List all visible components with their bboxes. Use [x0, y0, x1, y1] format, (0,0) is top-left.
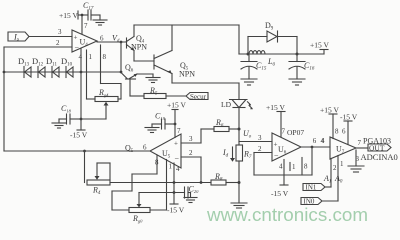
- U7 pin 3 ground: [348, 150, 364, 172]
- svg-text:Secur: Secur: [190, 93, 207, 101]
- node Vd: [112, 34, 122, 45]
- potentiometer R4: [85, 151, 111, 196]
- U5 pin 1 to Rg0 right: [150, 160, 173, 211]
- svg-text:1: 1: [89, 53, 93, 61]
- ground (C16): [289, 79, 305, 85]
- op-amp U6 OP07: [272, 128, 304, 161]
- wire +15V filter rail: [239, 53, 324, 56]
- U7 pin 2 (A1): [331, 159, 337, 188]
- U7 output pin 7 to OUT: [356, 139, 368, 148]
- wire Q6 base down to R5: [130, 79, 144, 96]
- op-amp U5 (points left): [143, 134, 181, 168]
- svg-text:Q6: Q6: [125, 63, 134, 74]
- wire R7 down to ground: [238, 161, 241, 203]
- svg-text:A0: A0: [334, 174, 343, 185]
- svg-text:4: 4: [279, 163, 283, 171]
- svg-text:U7: U7: [336, 145, 345, 156]
- svg-text:L6: L6: [267, 57, 275, 68]
- svg-text:3: 3: [258, 134, 262, 142]
- capacitor C18: [59, 104, 81, 124]
- ground (C19): [145, 124, 159, 133]
- svg-text:ADCINA0: ADCINA0: [361, 152, 398, 162]
- svg-text:3: 3: [189, 135, 193, 143]
- U6 pin 8 stub: [302, 158, 308, 176]
- net tag IN1: [303, 184, 331, 192]
- svg-text:7: 7: [358, 139, 362, 147]
- U5 pin 8 to Rg0 left: [112, 155, 159, 210]
- svg-text:D13: D13: [18, 56, 30, 68]
- wire Q5 emitter to LD column: [172, 74, 239, 84]
- svg-text:C16: C16: [304, 61, 315, 72]
- svg-text:7: 7: [84, 22, 88, 30]
- svg-text:7: 7: [282, 128, 286, 136]
- svg-text:1: 1: [292, 163, 296, 171]
- current arrow Id: [222, 147, 235, 162]
- diode D9: [265, 21, 278, 42]
- svg-text:+: +: [174, 140, 178, 148]
- net tag OUT: [368, 143, 391, 152]
- wire top rail down to +15V filter rail: [238, 25, 240, 54]
- ground (C15): [241, 79, 257, 85]
- svg-text:2: 2: [258, 145, 262, 153]
- svg-text:Vd: Vd: [112, 34, 120, 45]
- svg-text:-15 V: -15 V: [340, 113, 358, 122]
- svg-text:6: 6: [313, 137, 317, 145]
- svg-text:+15 V: +15 V: [310, 41, 329, 50]
- wire Is to U4 pin3: [29, 36, 72, 38]
- wire U4 pin2 to left frame: [4, 46, 72, 48]
- wire Q4 collector up: [133, 25, 135, 37]
- wire Vd down to Q6 collector row: [120, 42, 122, 73]
- wire Q5 collector up: [171, 25, 173, 51]
- svg-text:6: 6: [100, 35, 104, 43]
- U7 pin 1 (A0): [338, 156, 344, 202]
- wire Rg4 wiper to -15V rail: [81, 118, 106, 120]
- svg-text:C18: C18: [61, 104, 72, 114]
- net tag IN0: [301, 198, 338, 206]
- left frame wire: [4, 47, 150, 152]
- svg-text:2: 2: [333, 164, 337, 172]
- svg-text:D11: D11: [46, 56, 57, 68]
- U6 pin 7 and +15V: [266, 103, 286, 137]
- svg-text:D9: D9: [265, 21, 274, 32]
- ground (R7/R8): [231, 203, 247, 208]
- svg-text:OUT: OUT: [369, 143, 385, 152]
- capacitor C20: [185, 185, 200, 199]
- amplifier U7 PGA103: [330, 137, 391, 160]
- svg-text:+: +: [274, 141, 278, 149]
- svg-text:3: 3: [58, 28, 62, 36]
- wire Q6 emitter to ground: [137, 73, 153, 75]
- capacitor C16: [289, 54, 315, 79]
- svg-text:4: 4: [79, 53, 83, 61]
- svg-text:Rg0: Rg0: [132, 214, 143, 224]
- U6 pin 4 to -15V: [271, 160, 289, 199]
- net tag Secur: [186, 93, 208, 101]
- wire R5 to Secur tag: [166, 95, 186, 97]
- svg-text:7: 7: [177, 127, 181, 135]
- ground (C17): [93, 15, 107, 25]
- diode D12: [32, 56, 45, 78]
- U5 pin 2 wire down to bottom wire: [181, 149, 202, 184]
- labels A1 A0: [323, 174, 343, 185]
- svg-text:Rg4: Rg4: [98, 88, 109, 98]
- op-amp U4: [72, 30, 97, 53]
- U7 pin 8 and +15V: [320, 106, 339, 139]
- svg-text:www.cntronics.com: www.cntronics.com: [206, 204, 368, 225]
- svg-text:R8: R8: [214, 172, 223, 183]
- label ADCINA0: [356, 152, 398, 163]
- svg-text:6: 6: [143, 144, 147, 152]
- ground (Q6 emitter): [146, 74, 160, 83]
- svg-text:+15 V: +15 V: [266, 103, 285, 112]
- U6 output wire to U7: [301, 137, 330, 147]
- wire U4 output to Q4 base, node Vd: [97, 41, 127, 43]
- svg-text:8: 8: [155, 159, 159, 167]
- svg-text:8: 8: [103, 53, 107, 61]
- svg-text:Id: Id: [222, 148, 229, 159]
- svg-text:U4: U4: [80, 38, 89, 49]
- svg-text:Is: Is: [13, 32, 19, 43]
- capacitor C19: [152, 112, 175, 130]
- wire Rg0 wiper to -15V rail and C20: [139, 192, 185, 194]
- svg-text:−: −: [175, 154, 180, 163]
- svg-text:8: 8: [335, 128, 339, 136]
- svg-text:R5: R5: [149, 86, 158, 97]
- svg-text:C15: C15: [256, 61, 267, 72]
- svg-text:1: 1: [169, 163, 173, 171]
- +15V terminal (top left): [59, 11, 88, 20]
- U6 pin 1 stub: [290, 163, 296, 172]
- resistor R7 (vertical): [236, 145, 252, 161]
- transistor Q4: [127, 34, 148, 52]
- resistor R6: [214, 118, 239, 132]
- svg-text:+15 V: +15 V: [320, 106, 339, 115]
- U4 pin 4 / -15V column: [70, 49, 88, 140]
- diode D11: [46, 56, 59, 78]
- svg-text:Q5: Q5: [125, 144, 134, 155]
- U5 pin 7 and +15V: [167, 101, 186, 138]
- svg-text:U6: U6: [278, 145, 287, 156]
- svg-text:U5: U5: [162, 149, 171, 160]
- svg-text:-15 V: -15 V: [167, 206, 185, 215]
- svg-text:2: 2: [56, 39, 60, 47]
- capacitor C15: [241, 54, 267, 79]
- laser diode LD: [221, 83, 253, 109]
- diode D10: [61, 56, 73, 78]
- resistor R8: [211, 172, 239, 185]
- svg-text:8: 8: [304, 163, 308, 171]
- svg-text:A1: A1: [323, 174, 331, 185]
- inductor L6: [249, 51, 275, 68]
- ground (C18): [52, 119, 66, 128]
- U4 pin 8 to Rg4 right: [101, 45, 122, 99]
- svg-text:-15 V: -15 V: [70, 131, 88, 140]
- wire top rail Q4/Q5 collectors: [134, 24, 239, 26]
- svg-text:R4: R4: [92, 186, 101, 197]
- svg-text:+: +: [74, 34, 78, 42]
- svg-text:NPN: NPN: [131, 43, 147, 52]
- diode row wire (left): [3, 71, 123, 74]
- wire node Uo to OP07 pin3: [239, 141, 272, 143]
- ground (C20): [184, 193, 197, 203]
- svg-text:6: 6: [342, 128, 346, 136]
- +15V terminal (right of L6): [310, 41, 329, 55]
- diode D13: [18, 56, 31, 78]
- U5 pin 4 to -15V: [167, 163, 185, 215]
- potentiometer Rg0: [129, 193, 150, 224]
- svg-text:OP07: OP07: [287, 128, 304, 137]
- wire R4 to R8 (long bottom wire): [110, 182, 211, 184]
- svg-text:NPN: NPN: [179, 70, 195, 79]
- input tag Is: [8, 32, 29, 43]
- svg-text:4: 4: [176, 165, 180, 173]
- potentiometer Rg4: [95, 88, 118, 119]
- U7 pin 6 and -15V: [340, 113, 358, 145]
- wire Q4 emitter to Q5 base: [134, 51, 154, 62]
- svg-text:2: 2: [189, 149, 193, 157]
- svg-text:IN1: IN1: [306, 184, 317, 192]
- svg-text:+15 V: +15 V: [167, 101, 186, 110]
- U4 pin 1 to Rg4: [87, 50, 96, 99]
- transistor Q6: [121, 63, 137, 79]
- wire LD to node Uo: [238, 108, 240, 146]
- svg-text:R6: R6: [215, 118, 224, 129]
- svg-text:4: 4: [321, 137, 325, 145]
- transistor Q5: [154, 51, 195, 79]
- svg-text:+15 V: +15 V: [59, 11, 78, 20]
- diode D9 branch: [248, 37, 297, 55]
- svg-text:-15 V: -15 V: [271, 189, 289, 198]
- resistor R5: [144, 86, 166, 99]
- U6 pin 2 feedback loop: [254, 145, 313, 175]
- svg-text:C19: C19: [155, 112, 166, 122]
- pin 7 U4: [81, 15, 83, 34]
- svg-text:1: 1: [340, 160, 344, 168]
- node Uo: [238, 128, 252, 140]
- svg-text:D10: D10: [61, 56, 73, 68]
- U5 pin 3 wire to R6: [181, 129, 214, 143]
- svg-text:LD: LD: [221, 100, 232, 109]
- svg-text:D12: D12: [32, 56, 44, 68]
- capacitor C17: [83, 1, 100, 20]
- svg-text:Uo: Uo: [243, 129, 252, 140]
- svg-text:R7: R7: [243, 150, 252, 161]
